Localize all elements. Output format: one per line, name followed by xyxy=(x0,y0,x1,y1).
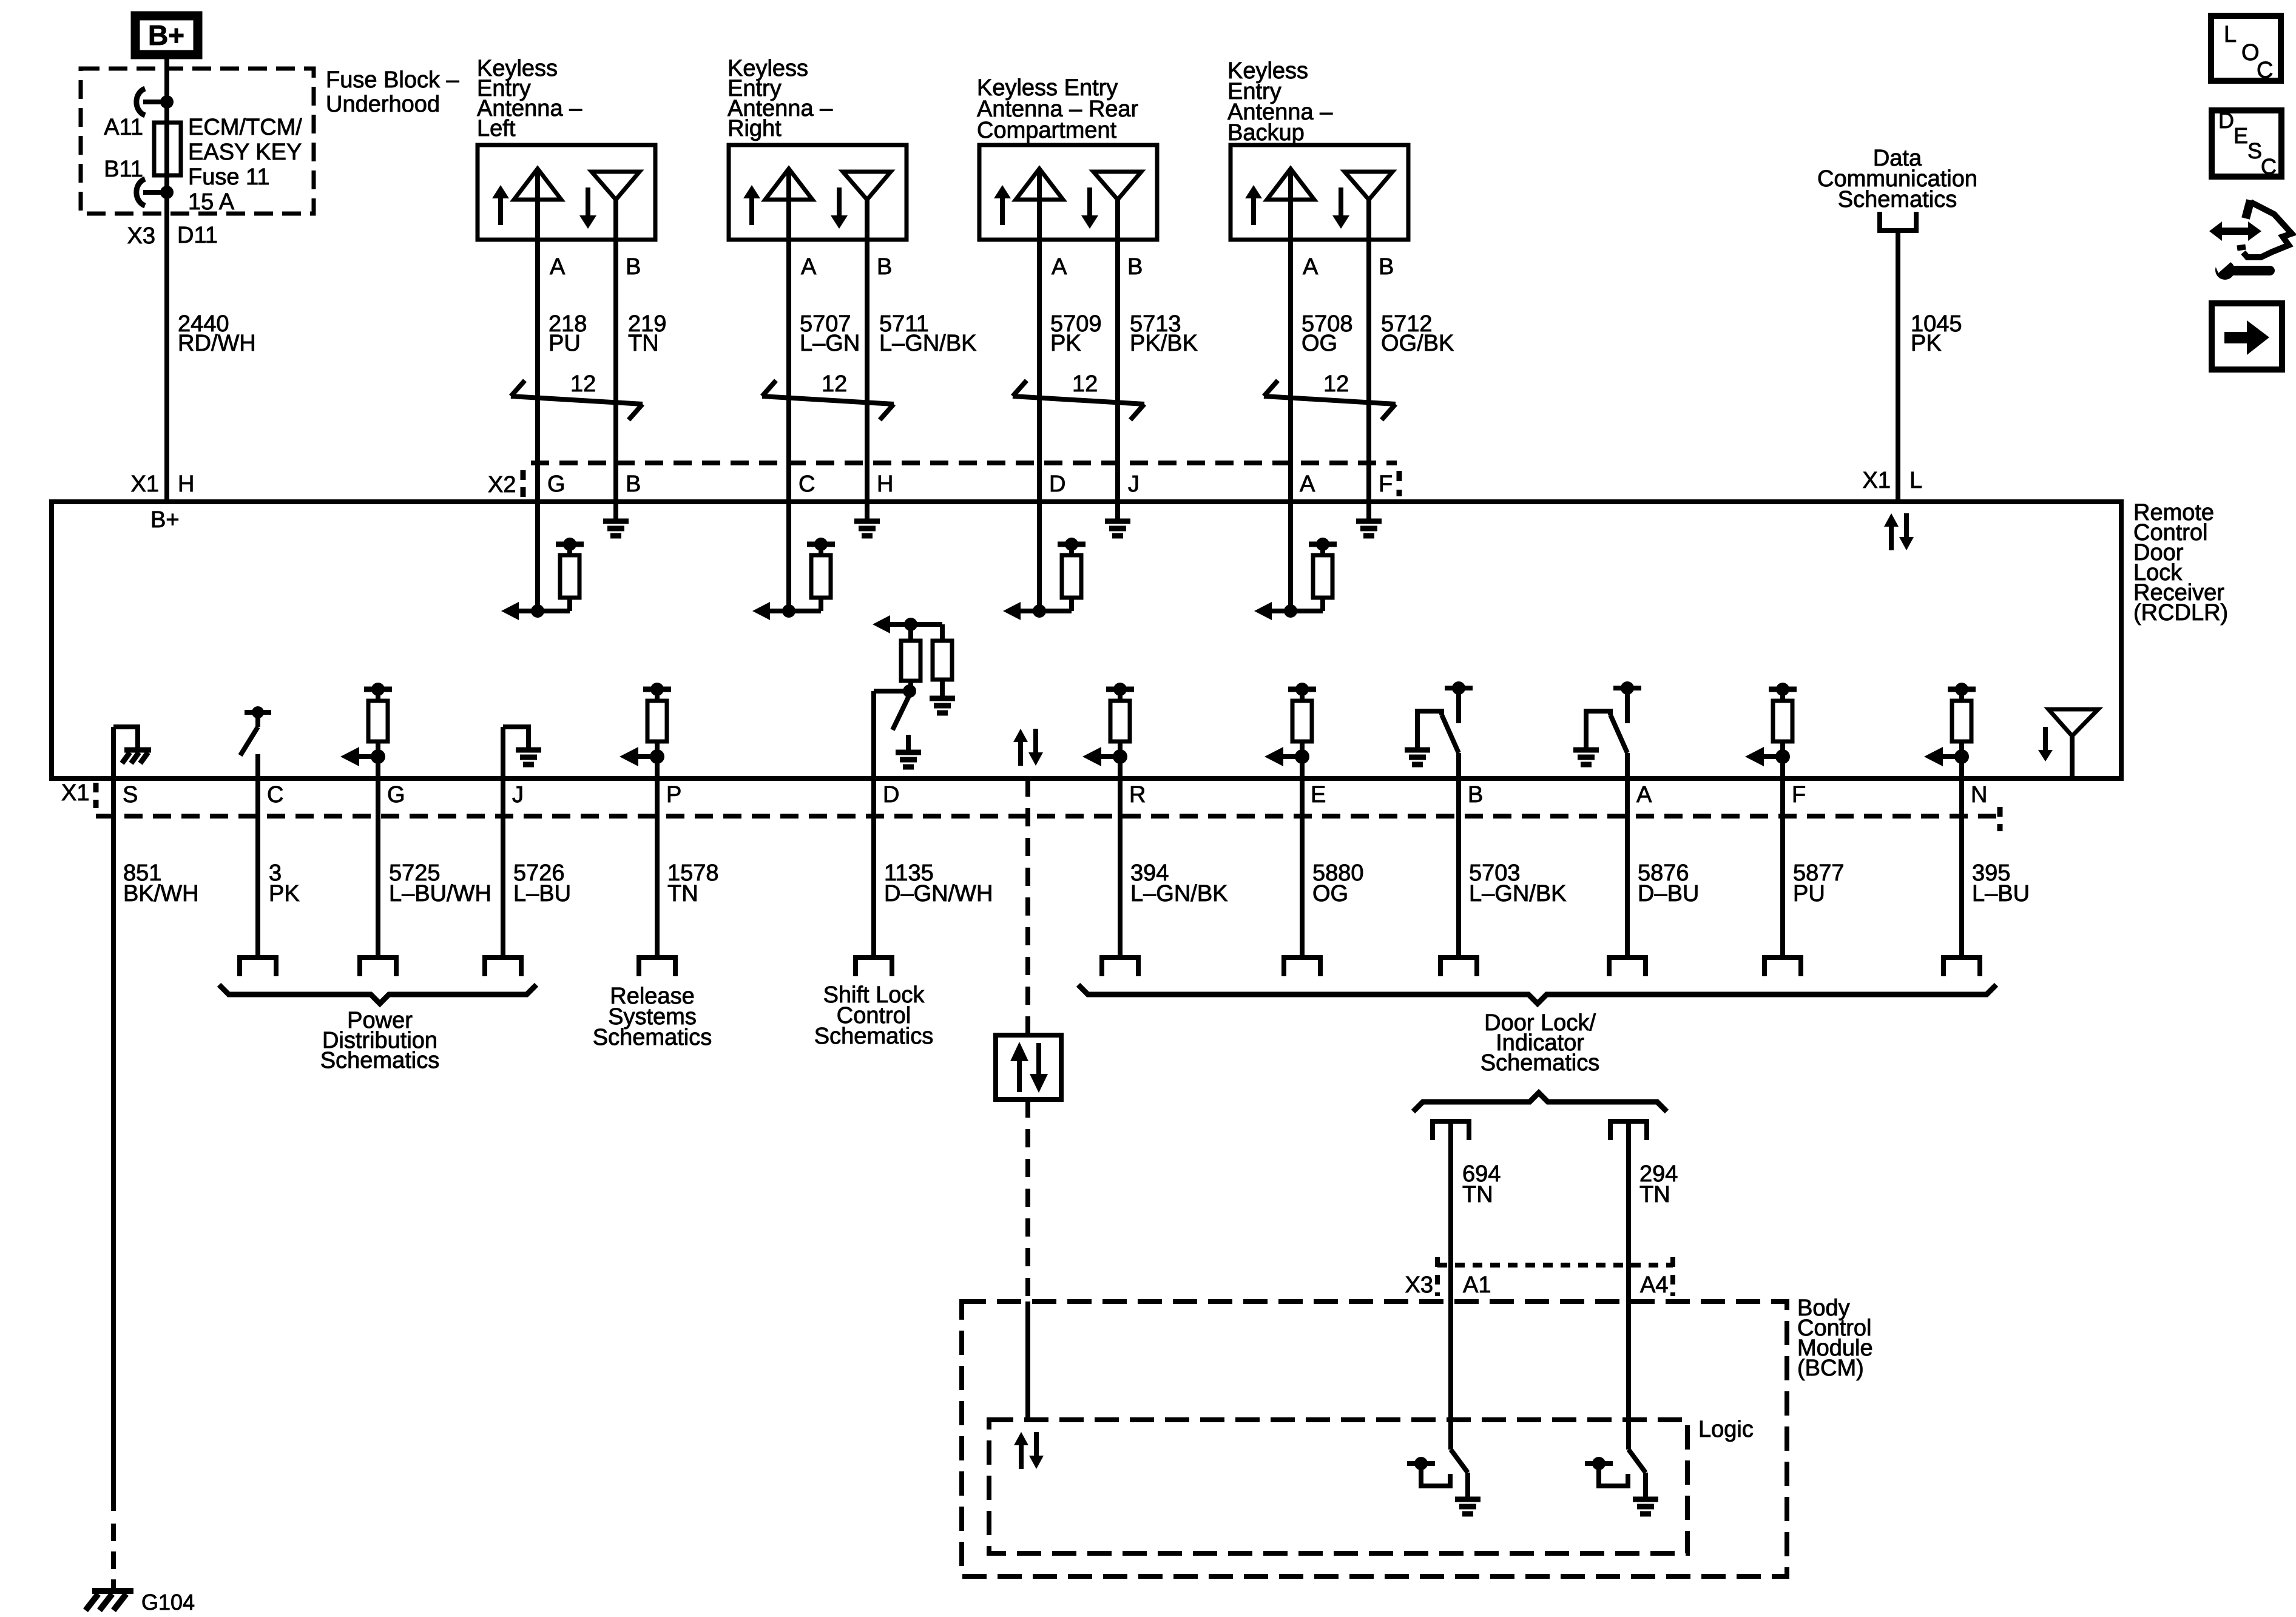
svg-text:C: C xyxy=(2257,58,2273,83)
icon LOC xyxy=(2211,16,2281,83)
svg-text:L–GN/BK: L–GN/BK xyxy=(1469,881,1567,906)
ground internal pin J xyxy=(1105,502,1130,536)
wire 5709 PK antenna rear pin A xyxy=(1037,240,1042,502)
svg-text:B: B xyxy=(626,471,641,497)
wire 5708 OG antenna backup pin A xyxy=(1288,240,1293,502)
svg-text:TN: TN xyxy=(628,331,659,356)
terminal pin N xyxy=(1941,957,1982,976)
terminal pin D xyxy=(853,957,894,976)
svg-text:X2: X2 xyxy=(488,472,516,498)
svg-text:TN: TN xyxy=(1462,1182,1493,1207)
wire 5707 L-GN antenna right pin A xyxy=(786,240,791,502)
svg-text:S: S xyxy=(2247,138,2262,163)
internal driver pin R resistor and arrow xyxy=(1082,683,1134,778)
svg-text:BK/WH: BK/WH xyxy=(123,881,199,906)
label wire 5880 OG xyxy=(1312,860,1364,906)
label connector X1 pin L xyxy=(1863,468,1923,493)
label wire 5711 L-GN/BK xyxy=(879,311,977,356)
svg-text:Left: Left xyxy=(477,116,516,141)
wire 5711 L-GN/BK antenna right pin B xyxy=(865,240,869,502)
svg-text:G: G xyxy=(547,471,566,497)
terminal pin P xyxy=(636,957,678,976)
internal chassis ground pin S xyxy=(113,727,151,778)
serial data arrows internal pin L xyxy=(1884,513,1914,550)
connector X2 boundary dashed line xyxy=(488,463,1399,499)
svg-text:OG: OG xyxy=(1312,881,1348,906)
svg-text:EASY KEY: EASY KEY xyxy=(188,140,302,165)
wire 5712 OG/BK antenna backup pin B xyxy=(1366,240,1371,502)
internal switch to ground pin A xyxy=(1573,681,1641,778)
wire 219 TN antenna left pin B xyxy=(613,240,618,502)
svg-text:PK/BK: PK/BK xyxy=(1130,331,1198,356)
ground BCM driver A1 xyxy=(1455,1499,1481,1514)
wire serial data dashed below gateway xyxy=(1025,1099,1030,1301)
BCM logic dashed box xyxy=(989,1420,1687,1553)
antenna A4 Keyless Entry Antenna Backup xyxy=(1227,58,1408,240)
terminal wire 694 xyxy=(1430,1121,1471,1140)
terminal pin A xyxy=(1607,957,1648,976)
svg-text:C: C xyxy=(267,782,283,808)
label wire 851 BK/WH xyxy=(123,860,199,906)
internal driver pin N resistor and arrow xyxy=(1924,683,1976,778)
antenna A1 Keyless Entry Antenna Left xyxy=(477,56,655,240)
svg-text:L–BU: L–BU xyxy=(1972,881,2030,906)
wire 394 L-GN/BK pin R xyxy=(1118,778,1123,955)
icon forward arrow xyxy=(2212,303,2282,370)
svg-text:D: D xyxy=(883,782,899,808)
svg-text:B: B xyxy=(1127,254,1143,280)
terminal pin F xyxy=(1762,957,1803,976)
label wire 218 PU xyxy=(549,311,587,356)
svg-text:L–GN/BK: L–GN/BK xyxy=(1130,881,1228,906)
svg-text:G: G xyxy=(387,782,405,808)
svg-text:C: C xyxy=(799,471,815,497)
svg-text:X1: X1 xyxy=(61,780,89,806)
antenna A3 Keyless Entry Antenna Rear Compartment xyxy=(977,75,1157,240)
svg-text:D: D xyxy=(2218,108,2234,133)
svg-text:A: A xyxy=(1303,254,1319,280)
svg-text:B: B xyxy=(1379,254,1394,280)
svg-text:A: A xyxy=(550,254,566,280)
svg-text:PK: PK xyxy=(1050,331,1081,356)
label fuse value xyxy=(188,115,302,215)
svg-text:D11: D11 xyxy=(177,223,218,248)
wire A1 inside BCM xyxy=(1451,1265,1468,1497)
icon adjust hand wrench xyxy=(2209,200,2292,280)
svg-text:12: 12 xyxy=(1072,371,1098,397)
svg-text:L–GN: L–GN xyxy=(800,331,860,356)
svg-text:L: L xyxy=(1909,468,1922,493)
wire 294 TN xyxy=(1626,1124,1631,1265)
svg-text:B+: B+ xyxy=(150,507,180,533)
fuse F11 ECM/TCM/EASY KEY 15A xyxy=(154,123,181,175)
label RCDLR xyxy=(2133,500,2228,626)
svg-text:B+: B+ xyxy=(148,19,184,51)
svg-text:A4: A4 xyxy=(1640,1272,1668,1298)
svg-text:TN: TN xyxy=(1639,1182,1670,1207)
svg-text:N: N xyxy=(1971,782,1987,808)
svg-text:15 A: 15 A xyxy=(188,189,235,215)
twisted pair mark 12 xyxy=(1013,371,1144,420)
node Power Distribution Schematics xyxy=(320,1008,439,1073)
label wire 5712 OG/BK xyxy=(1381,311,1454,356)
twisted pair mark 12 xyxy=(511,371,643,420)
ground internal pin B xyxy=(603,502,629,536)
svg-text:(RCDLR): (RCDLR) xyxy=(2133,600,2228,626)
svg-text:D–BU: D–BU xyxy=(1638,881,1699,906)
svg-text:F: F xyxy=(1792,782,1806,808)
internal shift lock drive pin D xyxy=(873,615,955,778)
svg-text:L–GN/BK: L–GN/BK xyxy=(879,331,977,356)
svg-text:E: E xyxy=(1311,782,1326,808)
label wire 1045 PK xyxy=(1911,311,1962,356)
internal ground pin J xyxy=(503,727,541,778)
node Door Lock Indicator Schematics xyxy=(1481,1010,1599,1076)
ground internal pin H xyxy=(854,502,880,536)
power symbol B+ xyxy=(135,16,198,55)
svg-text:A: A xyxy=(1636,782,1652,808)
fuse block dashed box xyxy=(81,69,314,214)
svg-text:Compartment: Compartment xyxy=(977,118,1117,143)
label wire 5708 OG xyxy=(1302,311,1353,356)
internal serial data arrows above pin for BCM xyxy=(1013,729,1043,766)
wire 1578 TN pin P xyxy=(655,778,660,955)
label connector X3 pin D11 xyxy=(127,223,218,249)
svg-text:B: B xyxy=(626,254,641,280)
label wire 5876 D-BU xyxy=(1638,860,1699,906)
svg-text:C: C xyxy=(2261,154,2277,179)
svg-text:A: A xyxy=(1300,471,1315,497)
connector X1 boundary dashed line bottom xyxy=(61,780,2000,831)
svg-text:TN: TN xyxy=(667,881,698,906)
node Shift Lock Control Schematics xyxy=(814,982,933,1049)
wire 3 PK pin C xyxy=(255,778,260,955)
wire A4 inside BCM xyxy=(1629,1265,1646,1497)
label wire 3 PK xyxy=(269,860,300,906)
svg-text:A1: A1 xyxy=(1463,1272,1491,1298)
svg-text:X1: X1 xyxy=(131,471,159,497)
wire 5703 L-GN/BK pin B xyxy=(1456,778,1461,955)
svg-text:L: L xyxy=(2224,22,2237,47)
svg-text:B11: B11 xyxy=(104,157,143,182)
label wire 5713 PK/BK xyxy=(1130,311,1198,356)
svg-text:Fuse 11: Fuse 11 xyxy=(188,164,269,190)
BCM driver contact A1 xyxy=(1407,1457,1450,1486)
svg-text:Fuse Block –: Fuse Block – xyxy=(326,67,460,93)
svg-text:A: A xyxy=(1052,254,1067,280)
terminal wire 294 xyxy=(1608,1121,1649,1140)
terminal pin C xyxy=(237,957,279,976)
svg-text:(BCM): (BCM) xyxy=(1797,1355,1864,1381)
label wire 294 TN xyxy=(1639,1161,1678,1207)
module U1 Remote Control Door Lock Receiver RCDLR box xyxy=(52,502,2121,778)
ground G104 xyxy=(86,1590,195,1615)
internal driver pin E resistor and arrow xyxy=(1264,683,1316,778)
brace door lock indicator sources xyxy=(1413,1093,1667,1112)
wire 218 PU antenna left pin A xyxy=(535,240,540,502)
module U2 Body Control Module BCM dashed box xyxy=(962,1301,1787,1576)
antenna drive A: junction arrow and resistor xyxy=(1254,502,1337,620)
label wire 5703 L-GN/BK xyxy=(1469,860,1567,906)
internal receive antenna xyxy=(2038,709,2098,778)
svg-text:J: J xyxy=(512,782,524,808)
svg-text:Schematics: Schematics xyxy=(1838,187,1957,212)
svg-text:Underhood: Underhood xyxy=(326,92,440,117)
connector clip B11 xyxy=(137,179,174,206)
svg-text:B: B xyxy=(1468,782,1483,808)
twisted pair mark 12 xyxy=(762,371,894,420)
svg-text:X1: X1 xyxy=(1863,468,1891,493)
svg-text:D–GN/WH: D–GN/WH xyxy=(884,881,993,906)
connector clip A11 xyxy=(137,89,174,115)
wire 1045 PK serial data xyxy=(1896,231,1900,502)
wire 694 TN xyxy=(1448,1124,1453,1265)
antenna drive G: junction arrow and resistor xyxy=(501,502,584,620)
svg-text:PK: PK xyxy=(1911,331,1942,356)
internal switch to ground pin B xyxy=(1405,681,1473,778)
antenna drive D: junction arrow and resistor xyxy=(1003,502,1086,620)
serial data arrows inside BCM xyxy=(1014,1432,1044,1469)
svg-text:X3: X3 xyxy=(127,223,155,249)
label Fuse Block Underhood xyxy=(326,67,460,117)
internal driver pin G resistor and arrow xyxy=(340,683,392,778)
wire 5713 PK/BK antenna rear pin B xyxy=(1115,240,1120,502)
svg-text:D: D xyxy=(1049,471,1065,497)
label BCM xyxy=(1797,1295,1873,1381)
label wire 2440 RD/WH xyxy=(178,311,256,356)
svg-text:Schematics: Schematics xyxy=(1481,1050,1599,1076)
svg-text:12: 12 xyxy=(822,371,847,397)
svg-text:PU: PU xyxy=(1793,881,1825,906)
wire 5725 L-BU/WH pin G xyxy=(376,778,380,955)
label wire 5707 L-GN xyxy=(800,311,860,356)
svg-text:Schematics: Schematics xyxy=(593,1025,712,1050)
twisted pair mark 12 xyxy=(1264,371,1396,420)
wire 5726 L-BU pin J xyxy=(501,778,505,955)
label wire 394 L-GN/BK xyxy=(1130,860,1228,906)
svg-text:E: E xyxy=(2234,123,2248,148)
svg-text:Schematics: Schematics xyxy=(320,1048,439,1073)
label wire 1578 TN xyxy=(667,860,719,906)
svg-text:R: R xyxy=(1129,782,1146,808)
svg-text:X3: X3 xyxy=(1405,1272,1433,1298)
antenna A2 Keyless Entry Antenna Right xyxy=(728,56,907,240)
svg-text:A: A xyxy=(801,254,817,280)
internal driver pin P resistor and arrow xyxy=(620,683,671,778)
label wire 5877 PU xyxy=(1793,860,1845,906)
terminal pin G xyxy=(357,957,399,976)
terminal pin B xyxy=(1438,957,1479,976)
svg-text:B: B xyxy=(877,254,892,280)
svg-text:Schematics: Schematics xyxy=(814,1024,933,1049)
svg-text:Logic: Logic xyxy=(1698,1417,1754,1442)
label wire 694 TN xyxy=(1462,1161,1501,1207)
wire serial data dashed to BCM xyxy=(1025,778,1030,1035)
brace door lock indicator group xyxy=(1078,985,1996,1004)
wire 5880 OG pin E xyxy=(1300,778,1305,955)
terminal pin R xyxy=(1099,957,1141,976)
svg-text:A11: A11 xyxy=(104,115,143,140)
serial data gateway box xyxy=(996,1035,1061,1099)
wire serial data solid inside BCM xyxy=(1025,1301,1030,1420)
label wire 5725 L-BU/WH xyxy=(389,860,491,906)
label wire 219 TN xyxy=(628,311,666,356)
svg-text:Right: Right xyxy=(728,116,782,141)
svg-text:H: H xyxy=(877,471,893,497)
label wire 5726 L-BU xyxy=(513,860,571,906)
node Release Systems Schematics xyxy=(593,984,712,1050)
svg-text:P: P xyxy=(666,782,681,808)
internal switch pin C xyxy=(240,706,271,778)
svg-text:S: S xyxy=(123,782,138,808)
svg-text:12: 12 xyxy=(570,371,596,397)
svg-text:ECM/TCM/: ECM/TCM/ xyxy=(188,115,302,140)
svg-text:H: H xyxy=(178,471,194,497)
node Data Communication Schematics xyxy=(1817,146,1977,231)
svg-text:J: J xyxy=(1128,471,1140,497)
wire 5876 D-BU pin A xyxy=(1625,778,1630,955)
internal driver pin F resistor and arrow xyxy=(1745,683,1797,778)
antenna drive C: junction arrow and resistor xyxy=(752,502,835,620)
label wire 5709 PK xyxy=(1050,311,1102,356)
connector X3 boundary dotted line xyxy=(1405,1257,1673,1298)
terminal pin E xyxy=(1281,957,1323,976)
BCM driver contact A4 xyxy=(1585,1457,1628,1486)
icon DESC xyxy=(2212,108,2281,179)
label connector X1 pin H xyxy=(131,471,195,497)
ground BCM driver A4 xyxy=(1633,1499,1658,1514)
wire B+ feed 2440 RD/WH xyxy=(164,59,169,502)
svg-text:RD/WH: RD/WH xyxy=(178,331,256,356)
brace power distribution group xyxy=(219,985,536,1004)
svg-text:G104: G104 xyxy=(141,1590,195,1615)
svg-text:F: F xyxy=(1379,471,1393,497)
svg-text:OG: OG xyxy=(1302,331,1337,356)
svg-text:PK: PK xyxy=(269,881,300,906)
wire 5877 PU pin F xyxy=(1780,778,1785,955)
ground internal pin F xyxy=(1356,502,1382,536)
svg-text:PU: PU xyxy=(549,331,581,356)
svg-text:L–BU/WH: L–BU/WH xyxy=(389,881,491,906)
svg-text:Backup: Backup xyxy=(1227,120,1305,146)
wire 1135 D-GN/WH pin D xyxy=(871,778,876,955)
wire 395 L-BU pin N xyxy=(1959,778,1964,955)
wire 851 BK/WH to G104 xyxy=(111,778,116,1591)
label wire 1135 D-GN/WH xyxy=(884,860,993,906)
label wire 395 L-BU xyxy=(1972,860,2030,906)
svg-text:OG/BK: OG/BK xyxy=(1381,331,1454,356)
terminal pin J xyxy=(482,957,524,976)
svg-text:L–BU: L–BU xyxy=(513,881,571,906)
svg-text:12: 12 xyxy=(1323,371,1349,397)
